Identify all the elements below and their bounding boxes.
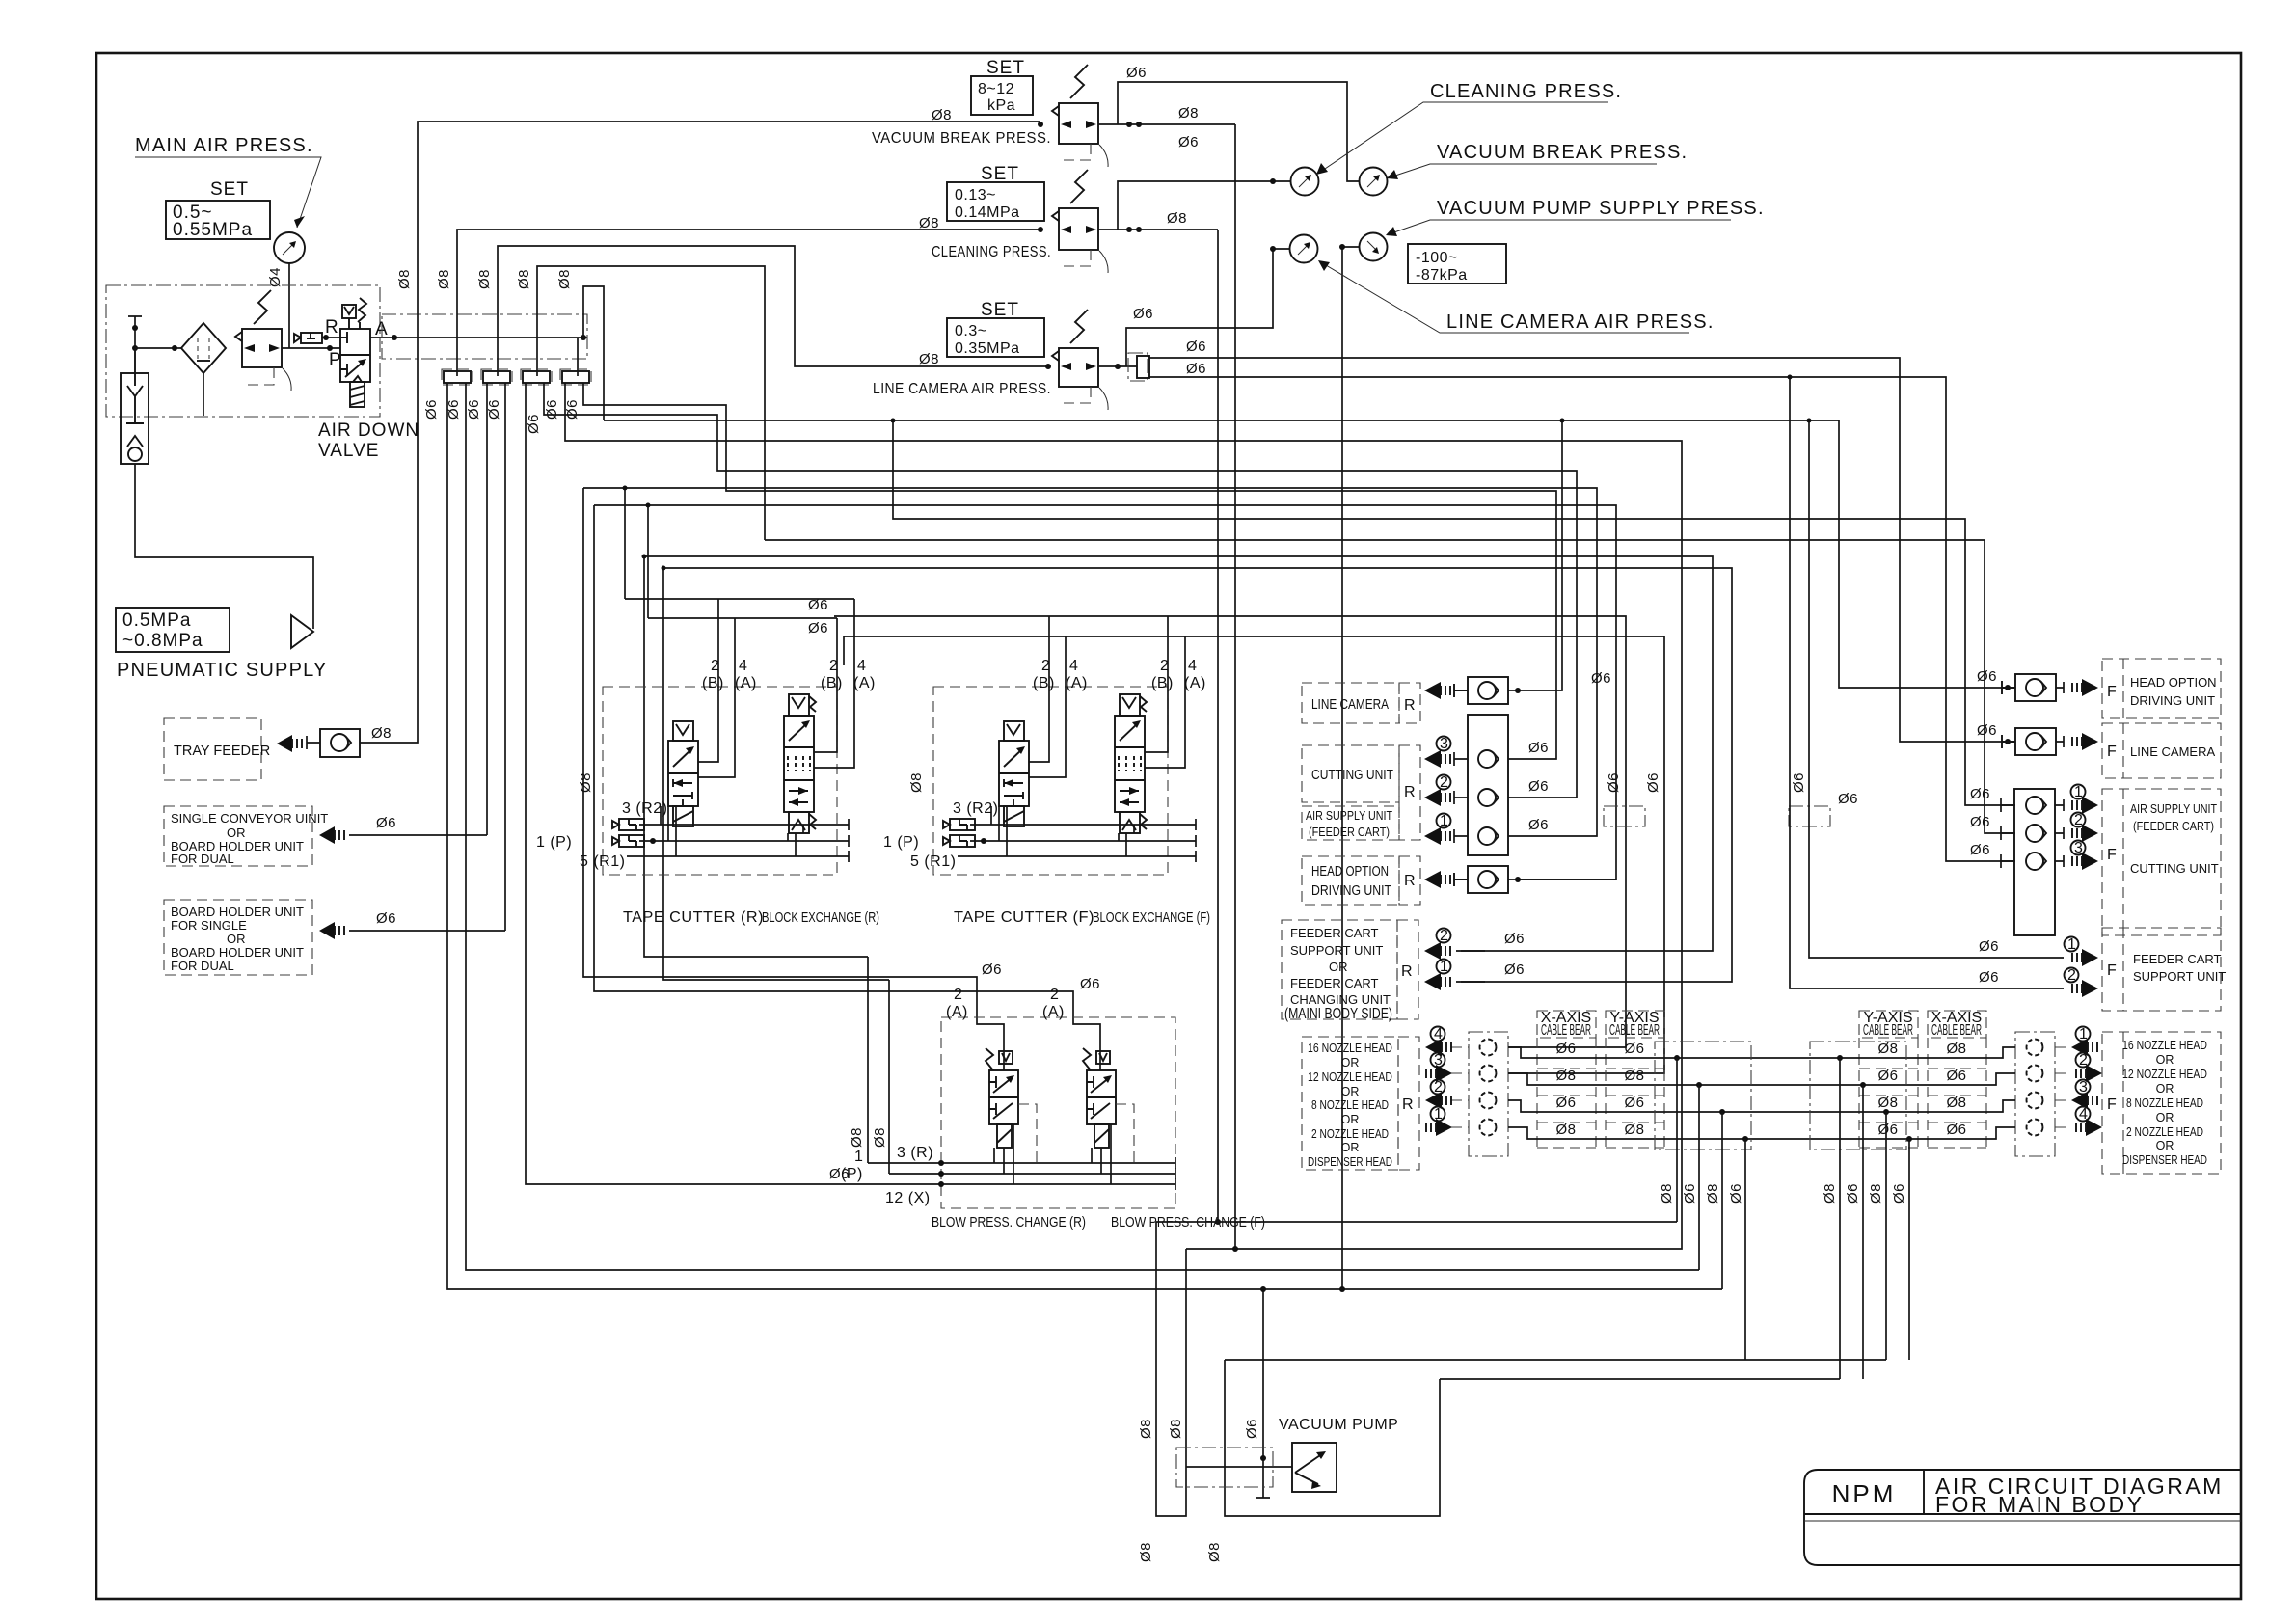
- wire Ø8 riser 1 to vacuum break regulator: [418, 122, 1040, 376]
- svg-text:FEEDER CART: FEEDER CART: [2133, 952, 2222, 966]
- svg-text:SINGLE CONVEYOR UINIT: SINGLE CONVEYOR UINIT: [171, 811, 328, 826]
- svg-text:4: 4: [1069, 658, 1078, 674]
- svg-text:0.35MPa: 0.35MPa: [955, 340, 1020, 357]
- wire grid row 4 (nozzle 1/4): [1508, 1127, 2015, 1139]
- wire inlet to filter: [135, 347, 181, 349]
- wire Ø6 drop row C (to bottom bundle): [466, 383, 1699, 1270]
- svg-text:F: F: [2107, 847, 2117, 863]
- svg-text:2: 2: [954, 987, 962, 1003]
- svg-text:1: 1: [1440, 813, 1448, 829]
- svg-text:3 (R2): 3 (R2): [953, 800, 998, 817]
- svg-text:CABLE BEAR: CABLE BEAR: [1931, 1022, 1982, 1039]
- wire grid row 2 (nozzle 3/2): [1508, 1073, 2015, 1085]
- valve tape cutter F: [999, 721, 1029, 826]
- svg-text:PNEUMATIC SUPPLY: PNEUMATIC SUPPLY: [117, 660, 328, 681]
- unit box nozzle heads (F): [2015, 1026, 2221, 1174]
- air down valve V0 (3 port): [340, 298, 370, 407]
- regulator REG3 line camera air press: [873, 246, 1290, 410]
- svg-text:Ø6: Ø6: [1555, 1095, 1576, 1111]
- wire Ø6 drop to board holder unit: [504, 383, 506, 931]
- svg-text:F: F: [2107, 962, 2117, 979]
- wire Ø8 pilot feeds down: [868, 957, 889, 1174]
- wire vacuum pump supply drop: [1342, 247, 1360, 1289]
- svg-text:DRIVING UNIT: DRIVING UNIT: [2130, 693, 2215, 708]
- wire row506 to cutting(1) riser: [583, 488, 1597, 836]
- regulator REG1 vacuum break press: [872, 58, 1360, 1252]
- wire grid drops to bottom bundle: [1676, 1058, 1678, 1222]
- wire Ø8 riser 4: [537, 266, 765, 540]
- svg-text:OR: OR: [2156, 1053, 2174, 1067]
- svg-text:Ø6: Ø6: [1970, 786, 1990, 802]
- svg-text:2: 2: [1050, 987, 1059, 1003]
- svg-text:R: R: [1402, 1096, 1414, 1113]
- nozzle manifold R (dash-dot): [1469, 1032, 1508, 1156]
- wire Ø6 drop to blow press 12(X): [526, 383, 941, 1184]
- pressure range box 0.5MPa~0.8MPa: [116, 608, 230, 652]
- unit box HEAD OPTION DRIVING UNIT (F): [1977, 659, 2221, 718]
- svg-text:Ø6: Ø6: [544, 399, 560, 420]
- svg-text:~0.8MPa: ~0.8MPa: [122, 631, 203, 651]
- svg-text:VACUUM PUMP: VACUUM PUMP: [1279, 1417, 1398, 1433]
- svg-text:BLOW PRESS. CHANGE (F): BLOW PRESS. CHANGE (F): [1111, 1215, 1265, 1231]
- svg-text:Ø8: Ø8: [1868, 1183, 1884, 1204]
- svg-text:F: F: [2107, 1096, 2117, 1113]
- svg-text:(B): (B): [1151, 675, 1174, 691]
- valve drain stubs R: [661, 806, 676, 856]
- unit box FEEDER CART SUPPORT/CHANGING (R): [1282, 920, 1525, 1022]
- svg-text:SET: SET: [210, 179, 249, 200]
- unit box LINE CAMERA (F): [1977, 722, 2221, 778]
- svg-text:1: 1: [1440, 959, 1448, 975]
- filter F1: [181, 323, 226, 373]
- svg-text:Ø6: Ø6: [982, 961, 1002, 978]
- svg-text:FOR SINGLE: FOR SINGLE: [171, 918, 247, 933]
- gauge G2 vacuum break press: [1360, 168, 1388, 196]
- svg-text:Ø6: Ø6: [1606, 772, 1622, 793]
- supply inlet tee: [128, 316, 142, 348]
- svg-text:HEAD OPTION: HEAD OPTION: [2130, 675, 2217, 690]
- TAPE CUTTER (F) / BLOCK EXCHANGE (F) cluster: [883, 616, 1210, 926]
- svg-text:HEAD OPTION: HEAD OPTION: [1311, 864, 1389, 880]
- port bus 1(P): [889, 1168, 1175, 1179]
- wire pump east riser: [1225, 1360, 1440, 1516]
- svg-text:BLOCK EXCHANGE (F): BLOCK EXCHANGE (F): [1093, 910, 1210, 926]
- svg-text:12 (X): 12 (X): [885, 1190, 931, 1206]
- svg-text:SET: SET: [981, 300, 1019, 320]
- svg-text:Ø6: Ø6: [1970, 814, 1990, 830]
- svg-text:Ø6: Ø6: [526, 414, 542, 434]
- svg-text:OR: OR: [1341, 1113, 1360, 1126]
- svg-text:Ø6: Ø6: [376, 815, 396, 831]
- svg-text:Ø6: Ø6: [1946, 1122, 1966, 1138]
- svg-text:OR: OR: [2156, 1111, 2174, 1124]
- svg-text:BOARD HOLDER UNIT: BOARD HOLDER UNIT: [171, 945, 304, 960]
- svg-text:Ø6: Ø6: [1504, 931, 1525, 947]
- svg-text:CABLE BEAR: CABLE BEAR: [1541, 1022, 1591, 1039]
- svg-text:Ø6: Ø6: [1126, 65, 1147, 81]
- svg-text:Ø8: Ø8: [1659, 1183, 1675, 1204]
- svg-text:Ø6: Ø6: [1970, 842, 1990, 858]
- svg-text:1: 1: [2074, 784, 2083, 800]
- svg-text:MAIN AIR PRESS.: MAIN AIR PRESS.: [135, 135, 313, 156]
- wire blow valve R pilot A line: [583, 488, 1004, 1070]
- svg-text:VACUUM BREAK PRESS.: VACUUM BREAK PRESS.: [872, 130, 1051, 147]
- svg-text:LINE CAMERA AIR PRESS.: LINE CAMERA AIR PRESS.: [1446, 311, 1715, 333]
- valve blow press change R: [986, 1048, 1037, 1163]
- TAPE CUTTER (R) / BLOCK EXCHANGE (R) cluster: [536, 599, 879, 926]
- svg-text:CUTTING UNIT: CUTTING UNIT: [2130, 861, 2219, 876]
- svg-text:Ø8: Ø8: [516, 269, 532, 289]
- svg-text:0.55MPa: 0.55MPa: [173, 220, 253, 240]
- svg-text:1: 1: [2067, 936, 2076, 953]
- svg-text:Ø6: Ø6: [829, 1166, 850, 1182]
- svg-text:Ø6: Ø6: [1624, 1095, 1644, 1111]
- svg-text:Ø6: Ø6: [466, 399, 482, 420]
- wire Ø6 staircase to cutting(2) riser: [544, 383, 1577, 798]
- svg-text:Ø6: Ø6: [564, 399, 581, 420]
- svg-text:3 (R): 3 (R): [897, 1145, 933, 1161]
- svg-text:Ø6: Ø6: [1244, 1419, 1260, 1439]
- svg-text:CABLE BEAR: CABLE BEAR: [1609, 1022, 1660, 1039]
- wire Ø8 riser 5 + A-line jog riser: [578, 286, 604, 420]
- svg-text:Ø6: Ø6: [1555, 1041, 1576, 1057]
- unit box LINE CAMERA (R): [1302, 670, 1611, 723]
- svg-text:AIR DOWN: AIR DOWN: [318, 420, 419, 441]
- unit box HEAD OPTION DRIVING UNIT (R): [1302, 856, 1616, 905]
- svg-text:(A): (A): [735, 675, 757, 691]
- svg-text:R: R: [325, 317, 339, 338]
- svg-text:Ø6: Ø6: [808, 620, 828, 636]
- wire Ø8 out corner down: [1234, 124, 1236, 1249]
- svg-text:TRAY FEEDER: TRAY FEEDER: [174, 744, 270, 759]
- outlet fitting of REG3: [1128, 353, 1148, 381]
- flow arrow into tray feeder: [277, 735, 292, 752]
- svg-text:Ø8: Ø8: [556, 269, 573, 289]
- svg-text:Ø6: Ø6: [423, 399, 440, 420]
- pilot check + spring on top: [342, 305, 356, 318]
- svg-text:Ø8: Ø8: [1168, 1419, 1184, 1439]
- svg-text:Ø6: Ø6: [486, 399, 502, 420]
- unit box CUTTING UNIT (R) + AIR SUPPLY UNIT: [1302, 715, 1549, 855]
- gauge G3 line camera air press: [1290, 235, 1318, 263]
- unit box SINGLE CONVEYOR/BOARD HOLDER DUAL: [164, 806, 328, 866]
- svg-text:CABLE BEAR: CABLE BEAR: [1863, 1022, 1913, 1039]
- wire row660 F-cluster feed to nozzle R (3): [844, 636, 1664, 1073]
- flow arrow board holder: [319, 922, 335, 939]
- svg-text:8~12: 8~12: [978, 81, 1014, 97]
- valve block exchange R: [784, 694, 816, 833]
- wire Ø6 drop row D (to bottom bundle): [447, 383, 1722, 1289]
- svg-text:Ø6: Ø6: [1877, 1122, 1898, 1138]
- svg-text:Ø8: Ø8: [1624, 1122, 1644, 1138]
- svg-text:VALVE: VALVE: [318, 441, 379, 461]
- svg-text:Ø6: Ø6: [1528, 817, 1549, 833]
- wire row560 to F cutting (2): [765, 540, 2015, 833]
- svg-text:(B): (B): [1033, 675, 1055, 691]
- valve block exchange F: [1115, 694, 1147, 833]
- port feed risers R: [698, 599, 854, 777]
- wire Ø6 pair to far right: [1149, 358, 2008, 742]
- svg-text:Ø8: Ø8: [849, 1127, 865, 1148]
- quick exhaust QE1: [294, 333, 340, 343]
- svg-text:(B): (B): [821, 675, 843, 691]
- wire Ø6 drop to tray feeder: [360, 376, 418, 743]
- title block: [1804, 1470, 2241, 1565]
- svg-text:Ø6: Ø6: [1528, 740, 1549, 756]
- port bus lines R: [639, 819, 849, 830]
- wire pump U leg: [1156, 1222, 1186, 1516]
- svg-text:0.14MPa: 0.14MPa: [955, 204, 1020, 221]
- valve blow press change F: [1083, 1048, 1134, 1163]
- svg-text:Ø8: Ø8: [1555, 1068, 1576, 1084]
- svg-text:CLEANING PRESS.: CLEANING PRESS.: [932, 244, 1051, 260]
- wire pump inlet: [1186, 1466, 1292, 1468]
- svg-text:8 NOZZLE HEAD: 8 NOZZLE HEAD: [1311, 1098, 1389, 1112]
- svg-text:Ø8: Ø8: [1624, 1068, 1644, 1084]
- svg-text:3 (R2): 3 (R2): [622, 800, 667, 817]
- wire blow valve F pilot A line: [594, 505, 1100, 1070]
- svg-text:Ø8: Ø8: [908, 772, 925, 793]
- svg-text:Ø6: Ø6: [1979, 938, 1999, 955]
- wire Ø6 branch up to cleaning gauge: [1118, 181, 1291, 230]
- svg-text:Ø8: Ø8: [872, 1127, 888, 1148]
- svg-text:Ø6: Ø6: [1891, 1183, 1907, 1204]
- svg-text:Ø6: Ø6: [1728, 1183, 1744, 1204]
- svg-text:12 NOZZLE HEAD: 12 NOZZLE HEAD: [1308, 1070, 1392, 1084]
- svg-text:2: 2: [1160, 658, 1169, 674]
- svg-text:FEEDER CART: FEEDER CART: [1290, 926, 1379, 940]
- svg-text:Ø6: Ø6: [1186, 361, 1206, 377]
- svg-text:Ø8: Ø8: [476, 269, 493, 289]
- svg-text:AIR SUPPLY UNIT: AIR SUPPLY UNIT: [1306, 808, 1392, 823]
- BLOW PRESS CHANGE valves: [829, 957, 1265, 1231]
- regulator REG2 cleaning press: [919, 164, 1291, 1225]
- svg-text:16 NOZZLE HEAD: 16 NOZZLE HEAD: [1308, 1042, 1392, 1055]
- vacuum pump dashed box: [1176, 1448, 1273, 1487]
- regulator REG0: [235, 290, 340, 391]
- wire gauge4 joins row D: [1339, 1286, 1345, 1292]
- gauge G4 vacuum pump supply press: [1360, 233, 1388, 261]
- wire Ø6 drop to row 457 (big loop to pump): [565, 383, 1682, 1249]
- svg-text:Ø8: Ø8: [1946, 1095, 1966, 1111]
- svg-text:R: R: [1401, 963, 1413, 980]
- vacuum pump VP1: [1292, 1443, 1337, 1492]
- svg-text:2: 2: [1041, 658, 1050, 674]
- svg-text:Ø8: Ø8: [1946, 1041, 1966, 1057]
- svg-text:1 (P): 1 (P): [883, 834, 919, 851]
- svg-text:2: 2: [2067, 967, 2076, 984]
- wire to single conveyor: [349, 834, 487, 836]
- wire line camera R riser: [1518, 420, 1562, 690]
- gauge G1 cleaning press: [1291, 168, 1319, 196]
- wire Ø6 branch up to line camera gauge: [1126, 249, 1290, 366]
- svg-text:Ø8: Ø8: [1705, 1183, 1721, 1204]
- svg-text:Ø8: Ø8: [932, 107, 952, 123]
- svg-text:(MAINI BODY SIDE): (MAINI BODY SIDE): [1284, 1006, 1392, 1022]
- svg-text:Ø8: Ø8: [919, 351, 939, 367]
- enclosure dashed box R: [603, 687, 837, 875]
- svg-text:OR: OR: [2156, 1139, 2174, 1152]
- wire A output line: [370, 337, 587, 338]
- svg-text:Ø6: Ø6: [1645, 772, 1661, 793]
- svg-text:Ø8: Ø8: [436, 269, 452, 289]
- svg-text:SET: SET: [981, 164, 1019, 184]
- wire gauge stem Ø4: [288, 263, 290, 348]
- svg-text:OR: OR: [1341, 1056, 1360, 1069]
- valve drain stubs F: [991, 806, 1007, 856]
- svg-text:P: P: [329, 350, 342, 370]
- wire bottom row E: [1225, 1359, 1886, 1361]
- svg-text:OR: OR: [2156, 1082, 2174, 1096]
- svg-text:TAPE CUTTER (R): TAPE CUTTER (R): [623, 909, 764, 926]
- svg-text:3: 3: [2074, 840, 2083, 856]
- wire row538 to F air supply (1): [893, 420, 2015, 805]
- svg-text:Ø8: Ø8: [1555, 1122, 1576, 1138]
- port feed risers F: [1029, 616, 1185, 777]
- svg-text:Ø6: Ø6: [376, 910, 396, 927]
- svg-text:VACUUM PUMP SUPPLY PRESS.: VACUUM PUMP SUPPLY PRESS.: [1437, 198, 1765, 219]
- svg-text:Ø6: Ø6: [1178, 134, 1199, 150]
- svg-text:2: 2: [829, 658, 838, 674]
- unit box nozzle heads (R): [1302, 1026, 1508, 1170]
- svg-text:FEEDER CART: FEEDER CART: [1290, 976, 1379, 990]
- svg-text:5 (R1): 5 (R1): [910, 853, 956, 870]
- SET label and set-value box 0.5~0.55MPa: [166, 179, 270, 240]
- svg-text:FOR DUAL: FOR DUAL: [171, 852, 234, 866]
- svg-text:SUPPORT UNIT: SUPPORT UNIT: [1290, 943, 1383, 958]
- svg-text:LINE CAMERA AIR PRESS.: LINE CAMERA AIR PRESS.: [873, 381, 1051, 397]
- svg-text:Ø8: Ø8: [1178, 105, 1199, 122]
- svg-text:Ø6: Ø6: [1624, 1041, 1644, 1057]
- svg-text:Ø6: Ø6: [1591, 670, 1611, 687]
- svg-text:Ø8: Ø8: [1877, 1095, 1898, 1111]
- flow arrow single conveyor: [319, 826, 335, 844]
- check manifold R (3 valves): [1468, 715, 1508, 855]
- svg-text:(A): (A): [1042, 1004, 1065, 1020]
- wire Ø8 out corner down: [1217, 230, 1219, 1222]
- dash-dot box around A line: [382, 314, 587, 359]
- svg-text:0.3~: 0.3~: [955, 323, 987, 339]
- svg-text:FOR MAIN BODY: FOR MAIN BODY: [1935, 1492, 2145, 1517]
- svg-text:SUPPORT UNIT: SUPPORT UNIT: [2133, 969, 2226, 984]
- dashed enclosure air supply unit: [106, 285, 380, 417]
- unit box BOARD HOLDER SINGLE/DUAL: [164, 900, 312, 975]
- svg-text:12 NOZZLE HEAD: 12 NOZZLE HEAD: [2122, 1068, 2207, 1081]
- unit box FEEDER CART SUPPORT UNIT (F): [1979, 928, 2226, 1011]
- port bus 3(R): [868, 1157, 1175, 1169]
- wire row639 F-cluster feed to nozzle R (4): [834, 616, 1626, 1047]
- svg-text:BLOW PRESS. CHANGE (R): BLOW PRESS. CHANGE (R): [932, 1215, 1086, 1231]
- svg-text:OR: OR: [1341, 1141, 1360, 1154]
- svg-text:Ø6: Ø6: [1791, 772, 1807, 793]
- pressure gauge G0 (main air): [274, 232, 305, 263]
- cable bear grids: [1537, 1038, 1986, 1148]
- wire Ø6 branch up to vacuum-break gauge: [1118, 82, 1360, 181]
- svg-text:4: 4: [1188, 658, 1197, 674]
- svg-text:(A): (A): [1066, 675, 1088, 691]
- svg-text:(B): (B): [702, 675, 724, 691]
- svg-text:2 NOZZLE HEAD: 2 NOZZLE HEAD: [1311, 1127, 1389, 1141]
- svg-text:Ø6: Ø6: [1977, 668, 1997, 685]
- svg-text:Ø6: Ø6: [1979, 969, 1999, 986]
- svg-text:8 NOZZLE HEAD: 8 NOZZLE HEAD: [2126, 1096, 2203, 1110]
- svg-text:CUTTING UNIT: CUTTING UNIT: [1311, 768, 1393, 783]
- wire bottom row F (pump riser east): [1440, 1378, 1840, 1380]
- svg-text:(A): (A): [1184, 675, 1206, 691]
- svg-text:Ø6: Ø6: [1504, 961, 1525, 978]
- svg-text:(A): (A): [946, 1004, 968, 1020]
- svg-text:(FEEDER CART): (FEEDER CART): [1309, 825, 1390, 839]
- svg-text:4: 4: [857, 658, 866, 674]
- svg-text:Ø6: Ø6: [1877, 1068, 1898, 1084]
- svg-text:Ø6: Ø6: [1838, 791, 1858, 807]
- svg-text:Ø6: Ø6: [1186, 338, 1206, 355]
- svg-text:Ø6: Ø6: [1977, 722, 1997, 739]
- svg-text:3: 3: [1440, 736, 1448, 752]
- svg-text:1: 1: [854, 1149, 863, 1165]
- manifold outlet fittings: [442, 369, 591, 385]
- svg-text:0.13~: 0.13~: [955, 187, 996, 203]
- unit box AIR SUPPLY + CUTTING (F): [1970, 784, 2221, 935]
- svg-text:CLEANING PRESS.: CLEANING PRESS.: [1430, 81, 1622, 102]
- svg-text:(FEEDER CART): (FEEDER CART): [2133, 819, 2214, 833]
- svg-text:LINE CAMERA: LINE CAMERA: [2130, 744, 2215, 759]
- svg-text:BOARD HOLDER UNIT: BOARD HOLDER UNIT: [171, 905, 304, 919]
- svg-text:OR: OR: [227, 932, 246, 946]
- svg-text:Ø8: Ø8: [1822, 1183, 1838, 1204]
- svg-text:Ø6: Ø6: [1946, 1068, 1966, 1084]
- svg-text:0.5MPa: 0.5MPa: [122, 610, 191, 631]
- wire row524 to head option R riser: [594, 505, 1616, 880]
- svg-text:5 (R1): 5 (R1): [580, 853, 625, 870]
- wire to board holder: [349, 930, 505, 932]
- pneumatic supply symbol (triangle): [291, 615, 313, 648]
- port feed rows R: [625, 599, 854, 618]
- wire bottom row A: [1156, 1221, 1677, 1223]
- port bus lines F: [970, 819, 1196, 830]
- wire pump feed drop: [1256, 1289, 1270, 1498]
- label MAIN AIR PRESS.: [135, 135, 321, 228]
- svg-text:1 (P): 1 (P): [536, 834, 572, 851]
- wire row577 to feeder cart R (2) + blow press feed: [644, 556, 1713, 951]
- svg-text:AIR SUPPLY UNIT: AIR SUPPLY UNIT: [2130, 801, 2217, 816]
- svg-text:2 NOZZLE HEAD: 2 NOZZLE HEAD: [2126, 1125, 2203, 1139]
- svg-text:Ø4: Ø4: [267, 267, 284, 287]
- svg-text:4: 4: [739, 658, 747, 674]
- svg-text:Ø6: Ø6: [1133, 306, 1153, 322]
- unit box TRAY FEEDER: [164, 718, 270, 780]
- svg-text:kPa: kPa: [987, 97, 1015, 114]
- port bus 12(X): [941, 1178, 1175, 1190]
- svg-text:OR: OR: [1329, 960, 1348, 974]
- svg-text:NPM: NPM: [1832, 1479, 1897, 1508]
- svg-text:R: R: [1404, 697, 1416, 714]
- svg-text:Ø8: Ø8: [396, 269, 413, 289]
- svg-text:DISPENSER HEAD: DISPENSER HEAD: [1308, 1155, 1392, 1169]
- wire row436 to F head option: [604, 420, 2008, 688]
- svg-text:BLOCK EXCHANGE (R): BLOCK EXCHANGE (R): [762, 910, 879, 926]
- drain check unit D1: [121, 348, 149, 464]
- svg-text:SET: SET: [986, 58, 1025, 78]
- wire Ø6 staircase to cutting(3) riser: [583, 383, 1556, 759]
- svg-text:CHANGING UNIT: CHANGING UNIT: [1290, 992, 1391, 1007]
- svg-text:Ø6: Ø6: [1528, 778, 1549, 795]
- wire grid row 1 (nozzle 4/1): [1508, 1047, 2015, 1058]
- grid drop junction dots: [1674, 1055, 1680, 1061]
- svg-text:OR: OR: [1341, 1085, 1360, 1098]
- svg-text:FOR DUAL: FOR DUAL: [171, 959, 234, 973]
- junction boxes between grids: [1655, 1042, 1751, 1150]
